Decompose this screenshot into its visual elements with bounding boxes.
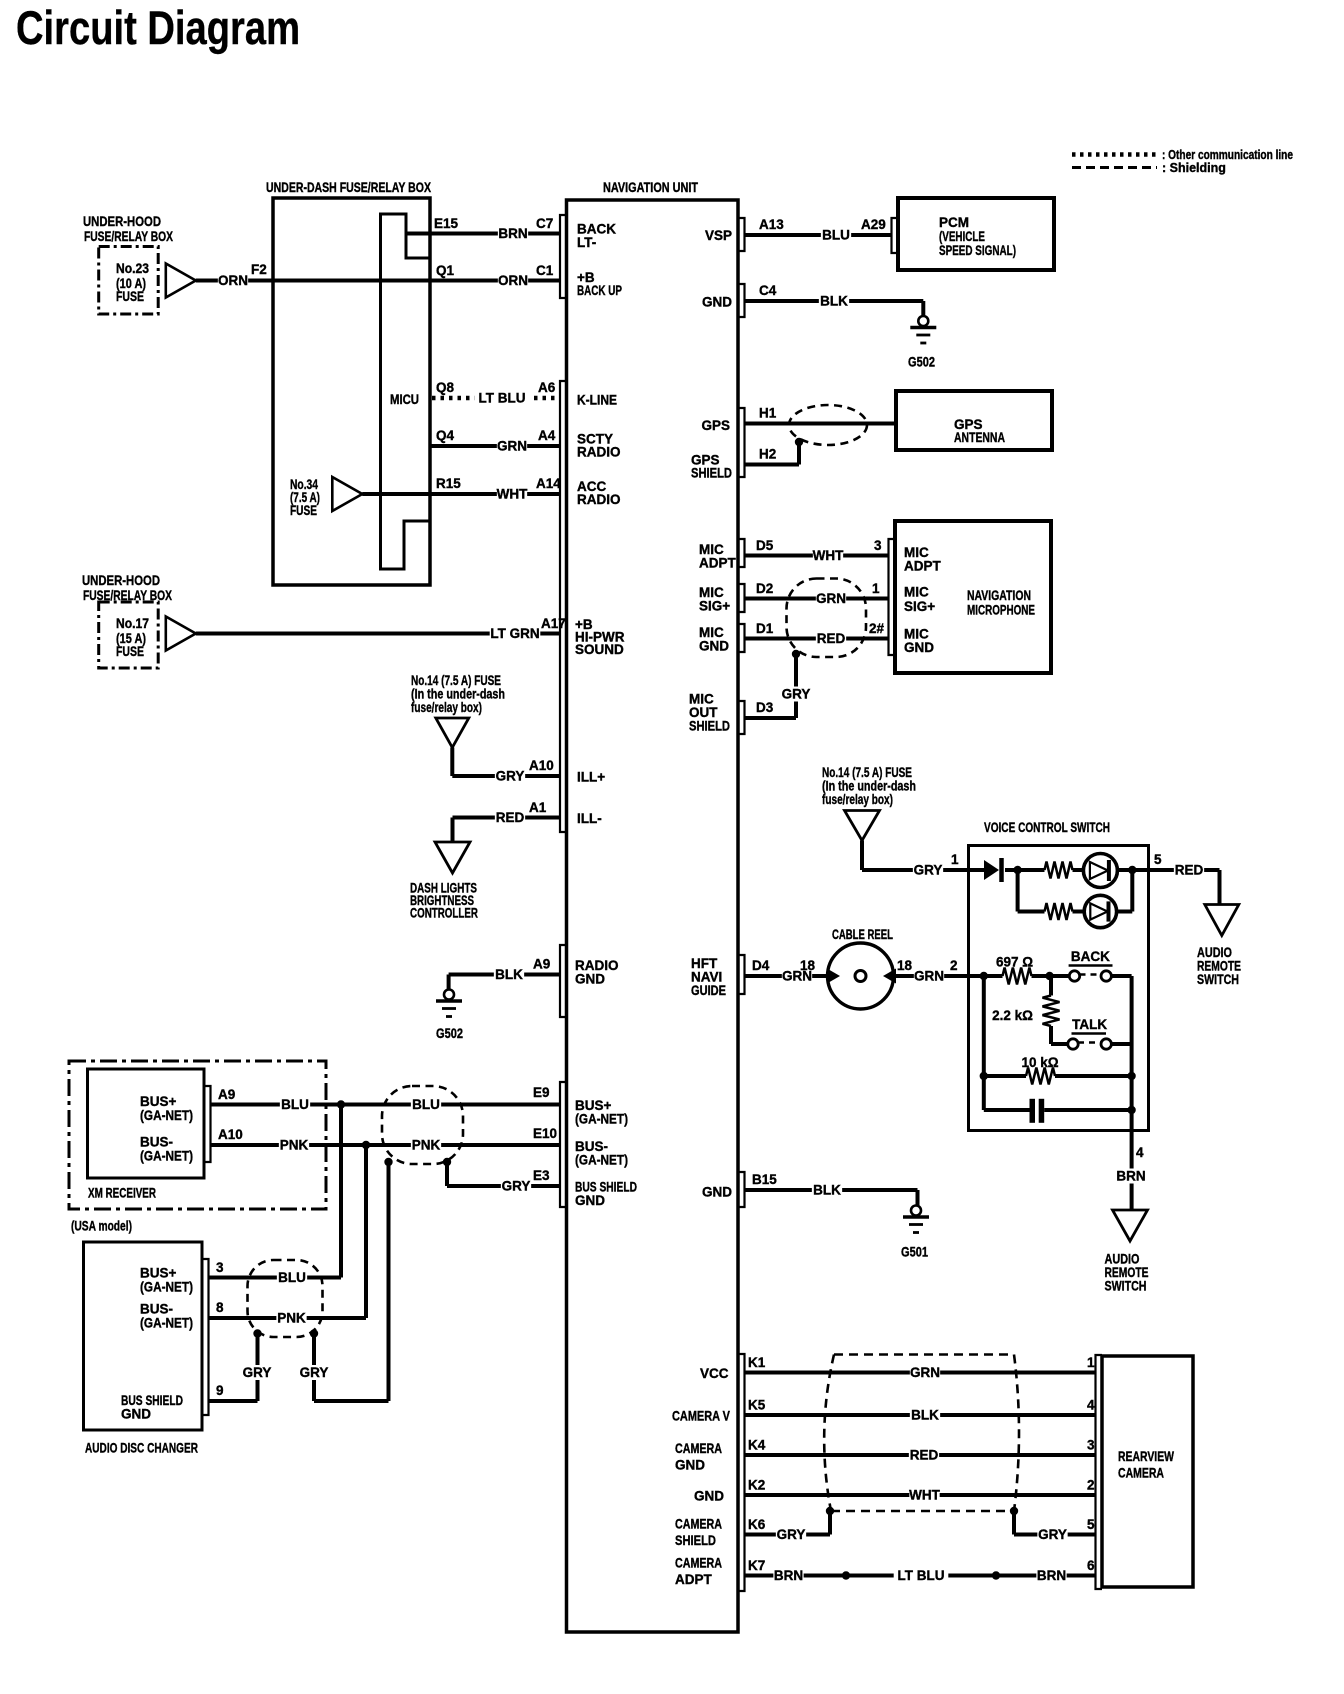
svg-text:CAMERA: CAMERA <box>1118 1466 1164 1481</box>
svg-text:GND: GND <box>699 639 729 654</box>
svg-text:GRY: GRY <box>502 1179 531 1194</box>
svg-text:NAVIGATION: NAVIGATION <box>967 588 1031 603</box>
svg-text:BLK: BLK <box>911 1408 939 1423</box>
svg-text:1: 1 <box>872 581 880 596</box>
svg-text:FUSE: FUSE <box>116 644 144 659</box>
svg-text:2#: 2# <box>869 621 885 636</box>
svg-text:A10: A10 <box>529 758 554 773</box>
svg-text:1: 1 <box>951 852 959 867</box>
svg-text:LT-: LT- <box>577 235 596 250</box>
svg-text:RED: RED <box>817 631 846 646</box>
svg-text:(GA-NET): (GA-NET) <box>140 1108 193 1123</box>
svg-text:BUS+: BUS+ <box>140 1094 177 1109</box>
svg-text:K7: K7 <box>748 1558 765 1573</box>
svg-text:RED: RED <box>1175 863 1204 878</box>
svg-text:SHIELD: SHIELD <box>689 719 730 734</box>
svg-text:MICROPHONE: MICROPHONE <box>967 603 1035 618</box>
svg-text:Q1: Q1 <box>436 263 455 278</box>
svg-text:D4: D4 <box>752 958 770 973</box>
svg-text:G502: G502 <box>908 355 935 370</box>
svg-text:SHIELD: SHIELD <box>691 466 732 481</box>
svg-text:CABLE REEL: CABLE REEL <box>832 927 893 942</box>
svg-text:BRN: BRN <box>1037 1568 1066 1583</box>
svg-text:A17: A17 <box>541 616 566 631</box>
svg-text:BLU: BLU <box>822 228 850 243</box>
svg-text:GRY: GRY <box>496 769 525 784</box>
svg-text:(GA-NET): (GA-NET) <box>140 1316 193 1331</box>
svg-text:GND: GND <box>702 295 732 310</box>
svg-text:UNDER-HOOD: UNDER-HOOD <box>82 573 160 588</box>
svg-text:NAVIGATION UNIT: NAVIGATION UNIT <box>603 180 699 195</box>
svg-text:REARVIEW: REARVIEW <box>1118 1449 1174 1464</box>
svg-text:BUS+: BUS+ <box>140 1266 177 1281</box>
svg-text:A9: A9 <box>218 1087 235 1102</box>
svg-text:ADPT: ADPT <box>699 556 737 571</box>
svg-text:XM RECEIVER: XM RECEIVER <box>88 1186 156 1201</box>
svg-text:VCC: VCC <box>700 1366 729 1381</box>
svg-text:(GA-NET): (GA-NET) <box>575 1153 628 1168</box>
svg-text:LT BLU: LT BLU <box>898 1568 945 1583</box>
svg-text:GRN: GRN <box>914 969 944 984</box>
svg-text:18: 18 <box>897 958 913 973</box>
svg-text:5: 5 <box>1087 1517 1095 1532</box>
svg-text:WHT: WHT <box>909 1488 940 1503</box>
svg-text:A29: A29 <box>861 217 886 232</box>
svg-text:BLU: BLU <box>412 1097 440 1112</box>
svg-text:A14: A14 <box>536 476 561 491</box>
svg-text:VOICE CONTROL SWITCH: VOICE CONTROL SWITCH <box>984 820 1110 835</box>
svg-text:UNDER-HOOD: UNDER-HOOD <box>83 214 161 229</box>
svg-text:Q4: Q4 <box>436 428 455 443</box>
svg-text:Circuit Diagram: Circuit Diagram <box>16 1 300 54</box>
svg-text:WHT: WHT <box>813 548 844 563</box>
svg-text:PCM: PCM <box>939 215 969 230</box>
svg-text:ILL+: ILL+ <box>577 770 605 785</box>
svg-text:BACK UP: BACK UP <box>577 283 622 298</box>
svg-text:BLK: BLK <box>820 294 848 309</box>
svg-text:PNK: PNK <box>280 1138 309 1153</box>
svg-text:C4: C4 <box>759 283 777 298</box>
svg-text:C7: C7 <box>536 216 553 231</box>
svg-text:MIC: MIC <box>904 585 929 600</box>
svg-text:SWITCH: SWITCH <box>1105 1279 1147 1294</box>
svg-text:BUS-: BUS- <box>140 1302 173 1317</box>
svg-text:G502: G502 <box>436 1026 463 1041</box>
svg-text:A10: A10 <box>218 1127 243 1142</box>
svg-text:A1: A1 <box>529 800 547 815</box>
svg-text:ADPT: ADPT <box>675 1572 713 1587</box>
svg-text:E10: E10 <box>533 1126 557 1141</box>
svg-text:ORN: ORN <box>498 273 528 288</box>
svg-text:GND: GND <box>121 1407 151 1422</box>
svg-text:GND: GND <box>575 1193 605 1208</box>
svg-text:2: 2 <box>950 958 958 973</box>
svg-text:F2: F2 <box>251 262 267 277</box>
svg-text:GND: GND <box>575 972 605 987</box>
svg-text:CAMERA: CAMERA <box>675 1556 722 1571</box>
svg-text:LT GRN: LT GRN <box>490 626 539 641</box>
svg-text:No.23: No.23 <box>116 261 149 276</box>
svg-text:fuse/relay box): fuse/relay box) <box>411 700 482 715</box>
svg-text:(GA-NET): (GA-NET) <box>575 1112 628 1127</box>
svg-text:G501: G501 <box>901 1245 928 1260</box>
svg-text:GND: GND <box>904 640 934 655</box>
svg-text:FUSE/RELAY BOX: FUSE/RELAY BOX <box>84 229 173 244</box>
svg-text:8: 8 <box>216 1300 224 1315</box>
svg-text:(GA-NET): (GA-NET) <box>140 1280 193 1295</box>
svg-text:3: 3 <box>216 1260 224 1275</box>
svg-text:5: 5 <box>1154 852 1162 867</box>
svg-text:WHT: WHT <box>497 487 528 502</box>
svg-text:9: 9 <box>216 1383 224 1398</box>
svg-text:K5: K5 <box>748 1398 766 1413</box>
svg-text:A4: A4 <box>538 428 556 443</box>
svg-text:697 Ω: 697 Ω <box>996 955 1033 970</box>
svg-text:BUS-: BUS- <box>140 1135 173 1150</box>
svg-text:FUSE: FUSE <box>116 289 144 304</box>
svg-text:UNDER-DASH FUSE/RELAY BOX: UNDER-DASH FUSE/RELAY BOX <box>266 180 431 195</box>
svg-text:TALK: TALK <box>1072 1017 1107 1032</box>
svg-text:A9: A9 <box>533 957 550 972</box>
svg-text:1: 1 <box>1087 1355 1095 1370</box>
svg-text:2: 2 <box>1087 1478 1095 1493</box>
svg-text:D3: D3 <box>756 700 774 715</box>
svg-text:C1: C1 <box>536 263 554 278</box>
svg-text:4: 4 <box>1136 1145 1144 1160</box>
svg-text:BLK: BLK <box>495 967 523 982</box>
svg-text:ANTENNA: ANTENNA <box>954 430 1005 445</box>
svg-text:GND: GND <box>694 1489 724 1504</box>
svg-text:FUSE: FUSE <box>290 503 317 518</box>
svg-text:GRN: GRN <box>910 1365 940 1380</box>
svg-text:GND: GND <box>702 1185 732 1200</box>
svg-text:PNK: PNK <box>277 1311 306 1326</box>
svg-text:BACK: BACK <box>1071 949 1110 964</box>
svg-text:ILL-: ILL- <box>577 811 602 826</box>
svg-text:(VEHICLE: (VEHICLE <box>939 229 985 244</box>
svg-text:RADIO: RADIO <box>577 492 621 507</box>
svg-text:GRY: GRY <box>243 1365 272 1380</box>
svg-text:2.2 kΩ: 2.2 kΩ <box>992 1008 1033 1023</box>
svg-text:6: 6 <box>1087 1558 1095 1573</box>
svg-text:3: 3 <box>874 538 882 553</box>
svg-text:No.17: No.17 <box>116 616 149 631</box>
svg-text:CONTROLLER: CONTROLLER <box>410 906 478 921</box>
svg-text:BLK: BLK <box>813 1183 841 1198</box>
svg-text:GRY: GRY <box>777 1527 806 1542</box>
svg-text:Q8: Q8 <box>436 380 455 395</box>
svg-text:BLU: BLU <box>278 1270 306 1285</box>
svg-text:H2: H2 <box>759 447 776 462</box>
svg-text:BRN: BRN <box>498 226 527 241</box>
svg-text:SHIELD: SHIELD <box>675 1533 716 1548</box>
svg-text:: Other communication line: : Other communication line <box>1162 148 1293 162</box>
svg-text:SOUND: SOUND <box>575 642 624 657</box>
svg-text:RED: RED <box>496 810 525 825</box>
svg-text:CAMERA V: CAMERA V <box>672 1409 730 1424</box>
svg-text:AUDIO DISC CHANGER: AUDIO DISC CHANGER <box>85 1441 198 1456</box>
svg-text:CAMERA: CAMERA <box>675 1441 722 1456</box>
svg-text:LT BLU: LT BLU <box>479 391 526 406</box>
svg-text:RADIO: RADIO <box>577 445 621 460</box>
svg-text:RED: RED <box>910 1448 939 1463</box>
svg-text:E15: E15 <box>434 216 459 231</box>
svg-text:GRY: GRY <box>782 687 811 702</box>
svg-text:H1: H1 <box>759 406 777 421</box>
svg-text:D1: D1 <box>756 621 774 636</box>
svg-text:BRN: BRN <box>1116 1169 1145 1184</box>
svg-text:SWITCH: SWITCH <box>1197 972 1239 987</box>
svg-text:SPEED SIGNAL): SPEED SIGNAL) <box>939 243 1016 258</box>
svg-text:BRN: BRN <box>774 1568 803 1583</box>
svg-text:SIG+: SIG+ <box>904 599 935 614</box>
svg-text:K6: K6 <box>748 1517 766 1532</box>
svg-text:GRY: GRY <box>1038 1527 1067 1542</box>
svg-text:(USA model): (USA model) <box>71 1219 132 1234</box>
svg-text:A6: A6 <box>538 380 556 395</box>
svg-text:K-LINE: K-LINE <box>577 393 617 408</box>
svg-text:SIG+: SIG+ <box>699 599 730 614</box>
svg-text:D5: D5 <box>756 538 774 553</box>
svg-text:fuse/relay box): fuse/relay box) <box>822 792 893 807</box>
svg-text:4: 4 <box>1087 1398 1095 1413</box>
svg-text:3: 3 <box>1087 1438 1095 1453</box>
svg-text:GRY: GRY <box>914 863 943 878</box>
svg-text:B15: B15 <box>752 1172 777 1187</box>
svg-text:GUIDE: GUIDE <box>691 983 726 998</box>
svg-text:R15: R15 <box>436 476 461 491</box>
svg-text:K2: K2 <box>748 1478 765 1493</box>
svg-text:GRY: GRY <box>300 1365 329 1380</box>
svg-text:VSP: VSP <box>705 228 732 243</box>
svg-text:ADPT: ADPT <box>904 559 942 574</box>
svg-text:GRN: GRN <box>497 439 527 454</box>
svg-text:ORN: ORN <box>218 273 248 288</box>
svg-text:BLU: BLU <box>281 1097 309 1112</box>
svg-text:(GA-NET): (GA-NET) <box>140 1149 193 1164</box>
svg-text:D2: D2 <box>756 581 773 596</box>
svg-text:18: 18 <box>800 958 816 973</box>
svg-text:GPS: GPS <box>701 418 730 433</box>
svg-text:PNK: PNK <box>412 1138 441 1153</box>
svg-text:GRN: GRN <box>816 591 846 606</box>
svg-text:E3: E3 <box>533 1168 550 1183</box>
svg-text:K4: K4 <box>748 1438 766 1453</box>
svg-text:MICU: MICU <box>390 392 419 407</box>
svg-text:CAMERA: CAMERA <box>675 1517 722 1532</box>
svg-text:K1: K1 <box>748 1355 766 1370</box>
svg-text:GND: GND <box>675 1458 705 1473</box>
svg-text:: Shielding: : Shielding <box>1162 161 1226 175</box>
svg-text:E9: E9 <box>533 1085 550 1100</box>
svg-text:A13: A13 <box>759 217 784 232</box>
